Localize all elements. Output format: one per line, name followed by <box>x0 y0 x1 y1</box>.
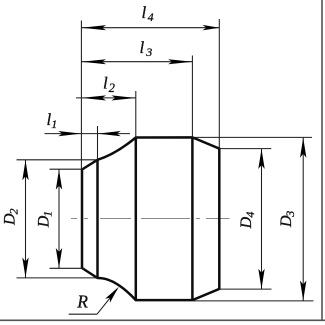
frame border bottom <box>0 319 325 321</box>
arrow l2 right <box>111 95 135 100</box>
svg-text:l: l <box>103 74 108 93</box>
arrow D3 bottom <box>300 281 306 301</box>
extension line D1 bottom <box>50 267 85 269</box>
arrow l1 right (outside) <box>98 131 121 136</box>
dimension l1 line <box>45 133 131 135</box>
svg-text:2: 2 <box>109 81 115 95</box>
svg-text:l: l <box>140 38 145 57</box>
extension line x=219.3 <box>218 19 220 149</box>
extension line D3 top <box>193 136 312 138</box>
extension line D4 top <box>219 148 271 150</box>
arrow D4 bottom <box>258 269 264 289</box>
leader R diagonal <box>97 289 117 314</box>
arrow D4 top <box>258 149 264 169</box>
arrow D1 top <box>56 170 62 190</box>
arrow l1 left (outside) <box>58 131 81 136</box>
svg-text:l: l <box>142 3 147 22</box>
extension line D2 bottom <box>17 277 98 279</box>
extension line D4 bottom <box>219 288 271 290</box>
arrow D2 top <box>22 160 28 180</box>
dimension l2 line <box>76 97 136 99</box>
part outline profile <box>82 137 219 300</box>
part edge at x=192.4 <box>191 137 194 300</box>
centerline axis <box>71 218 230 220</box>
arrow D1 bottom <box>56 248 62 268</box>
extension line x=135.8 <box>135 91 137 138</box>
arrow l2 left <box>82 95 107 100</box>
dimension D3 line <box>302 138 304 301</box>
dimension D2 line <box>25 160 27 278</box>
dimension l3 line <box>81 61 192 63</box>
extension line D2 top <box>17 159 98 161</box>
svg-text:R: R <box>76 292 88 312</box>
arrow l4 right <box>202 25 219 31</box>
dimension D4 line <box>261 149 263 289</box>
dimension l4 line <box>81 27 219 29</box>
arrow D3 top <box>300 138 306 158</box>
extension line D1 top <box>50 168 85 170</box>
leader R shelf <box>69 313 97 315</box>
part edge at x=97.5 <box>96 160 99 278</box>
arrow D2 bottom <box>22 258 28 278</box>
part edge at x=135.8 <box>135 138 138 301</box>
dimension D1 line <box>58 169 60 268</box>
svg-text:4: 4 <box>148 10 154 24</box>
svg-text:3: 3 <box>145 45 152 59</box>
arrow l4 left <box>82 25 107 30</box>
svg-text:1: 1 <box>51 117 57 131</box>
extension line x=192.4 <box>191 56 193 138</box>
frame border right <box>321 0 323 320</box>
extension line x=97.5 <box>97 126 99 160</box>
arrow l3 left <box>82 59 107 64</box>
extension line D3 bottom <box>193 300 314 302</box>
arrow R <box>105 287 119 303</box>
extension line x=81.4 <box>80 21 82 170</box>
arrow l3 right <box>168 59 193 64</box>
